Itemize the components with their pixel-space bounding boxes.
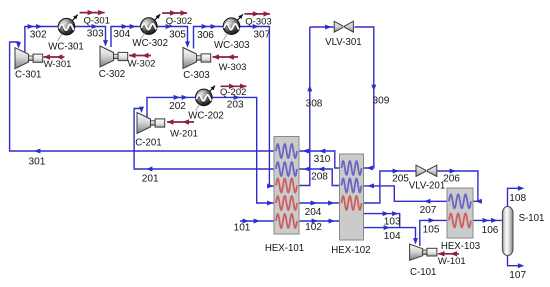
svg-text:WC-301: WC-301 [48,42,84,53]
svg-text:W-303: W-303 [219,62,247,73]
svg-text:C-301: C-301 [15,69,41,80]
svg-text:108: 108 [509,193,526,204]
svg-text:HEX-101: HEX-101 [265,243,304,254]
svg-text:105: 105 [423,224,440,235]
svg-text:S-101: S-101 [519,213,545,224]
svg-text:Q-303: Q-303 [245,16,271,27]
svg-text:308: 308 [306,99,323,110]
svg-text:W-101: W-101 [438,256,466,267]
svg-text:301: 301 [28,156,45,167]
svg-text:W-301: W-301 [44,59,72,70]
svg-text:304: 304 [113,29,130,40]
svg-text:101: 101 [234,223,251,234]
svg-text:204: 204 [305,207,322,218]
svg-text:WC-303: WC-303 [214,40,250,51]
svg-text:C-201: C-201 [135,138,161,149]
svg-text:306: 306 [197,30,214,41]
svg-text:202: 202 [169,101,186,112]
svg-text:206: 206 [443,173,460,184]
svg-text:C-302: C-302 [99,69,125,80]
svg-text:103: 103 [384,217,401,228]
svg-text:VLV-301: VLV-301 [325,37,361,48]
svg-text:C-303: C-303 [183,70,209,81]
svg-text:W-201: W-201 [170,129,198,140]
svg-text:HEX-102: HEX-102 [331,245,370,256]
svg-text:303: 303 [87,28,104,39]
svg-text:302: 302 [30,29,47,40]
svg-text:201: 201 [142,173,159,184]
svg-text:Q-301: Q-301 [83,16,109,27]
svg-text:VLV-201: VLV-201 [409,180,445,191]
svg-text:Q-202: Q-202 [220,87,246,98]
svg-text:305: 305 [169,29,186,40]
svg-text:C-101: C-101 [410,267,436,278]
svg-text:106: 106 [482,225,499,236]
svg-text:102: 102 [305,222,322,233]
svg-text:309: 309 [372,96,389,107]
svg-text:107: 107 [509,270,526,281]
svg-text:WC-302: WC-302 [132,38,168,49]
svg-text:WC-202: WC-202 [188,110,224,121]
svg-text:104: 104 [384,231,401,242]
svg-text:208: 208 [311,171,328,182]
svg-text:203: 203 [227,100,244,111]
svg-text:207: 207 [420,205,437,216]
svg-text:HEX-103: HEX-103 [441,241,480,252]
svg-text:Q-302: Q-302 [166,16,192,27]
svg-text:W-302: W-302 [128,59,156,70]
svg-text:307: 307 [253,29,270,40]
svg-text:310: 310 [314,154,331,165]
svg-text:205: 205 [392,173,409,184]
